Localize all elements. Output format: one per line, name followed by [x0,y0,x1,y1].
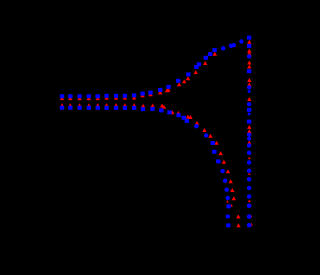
red triangle series [60,40,253,227]
blue square series [60,36,251,228]
blue circle series [194,39,251,227]
